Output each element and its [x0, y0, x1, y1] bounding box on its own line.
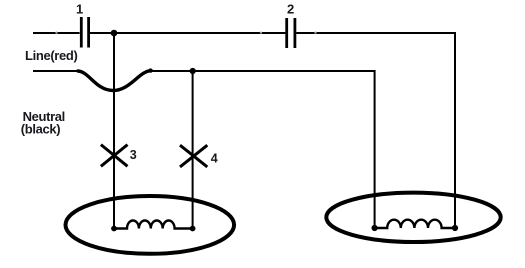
- svg-text:(black): (black): [21, 122, 60, 137]
- svg-text:2: 2: [287, 2, 294, 17]
- svg-text:Line(red): Line(red): [25, 48, 77, 63]
- svg-text:4: 4: [211, 152, 218, 166]
- svg-text:1: 1: [76, 2, 83, 17]
- svg-text:3: 3: [130, 148, 137, 162]
